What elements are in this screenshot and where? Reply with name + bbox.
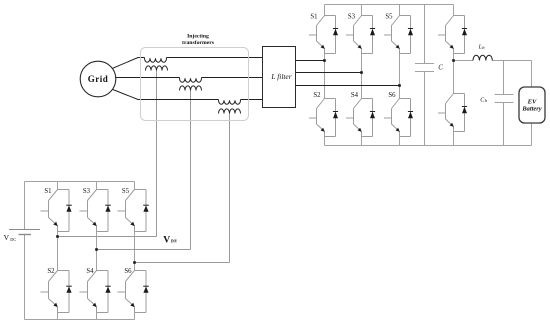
svg-text:S1: S1 [310,13,317,20]
svg-text:S6: S6 [388,92,396,99]
svg-text:S6: S6 [124,268,132,275]
svg-text:EV: EV [527,98,537,105]
svg-text:b: b [482,45,485,50]
svg-text:C: C [438,64,443,72]
svg-text:S5: S5 [385,13,393,20]
svg-text:transformers: transformers [182,40,215,46]
svg-text:L filter: L filter [270,72,291,81]
svg-text:INV: INV [171,240,178,244]
svg-text:b: b [485,98,488,103]
svg-text:Grid: Grid [88,74,109,84]
svg-text:Battery: Battery [521,106,541,113]
svg-text:V: V [163,235,170,246]
svg-text:Injecting: Injecting [187,33,209,39]
svg-text:S1: S1 [44,188,51,195]
svg-text:S3: S3 [348,13,356,20]
svg-text:S5: S5 [122,188,130,195]
svg-text:S2: S2 [47,268,55,275]
svg-text:S3: S3 [83,188,91,195]
svg-text:S4: S4 [351,92,359,99]
svg-text:S4: S4 [86,268,94,275]
svg-text:S2: S2 [313,92,321,99]
svg-text:V: V [4,233,10,242]
svg-text:DC: DC [10,237,16,242]
